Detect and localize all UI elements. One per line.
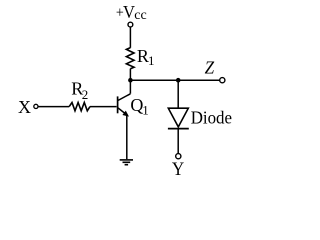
wire Vcc to R1 bbox=[129, 27, 131, 48]
resistor R2 bbox=[69, 79, 90, 111]
svg-text:Y: Y bbox=[172, 158, 184, 179]
diode D1 bbox=[168, 107, 232, 129]
svg-text:1: 1 bbox=[142, 102, 149, 117]
wire node to Z bbox=[130, 79, 220, 81]
terminal Z bbox=[205, 57, 225, 83]
svg-text:X: X bbox=[18, 97, 31, 117]
wire collector to node bbox=[129, 80, 131, 94]
wire R2 to base bbox=[90, 106, 117, 108]
power terminal +Vcc bbox=[116, 3, 147, 27]
node junction diode branch bbox=[176, 78, 181, 83]
svg-text:1: 1 bbox=[148, 53, 155, 68]
transistor Q1 bbox=[118, 94, 149, 118]
svg-text:Diode: Diode bbox=[191, 107, 233, 128]
svg-text:2: 2 bbox=[82, 87, 89, 102]
terminal Y bbox=[172, 154, 184, 179]
svg-text:Z: Z bbox=[205, 57, 215, 78]
wire R1 to node bbox=[129, 69, 131, 81]
wire diode to Y bbox=[177, 130, 179, 154]
terminal X bbox=[18, 97, 38, 117]
resistor R1 bbox=[126, 46, 154, 69]
ground bbox=[120, 160, 133, 165]
node junction under R1 bbox=[128, 78, 133, 83]
svg-text:cc: cc bbox=[134, 8, 146, 23]
wire X to R2 bbox=[38, 106, 69, 108]
wire emitter to ground bbox=[126, 115, 128, 159]
wire node to diode bbox=[177, 80, 179, 108]
